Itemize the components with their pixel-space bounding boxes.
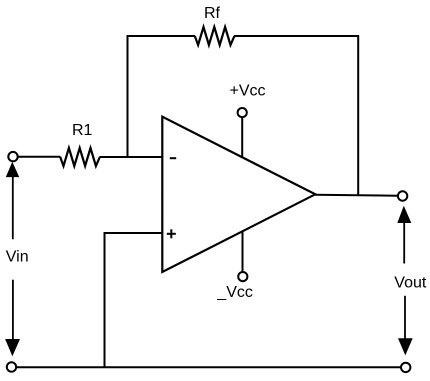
- wire feedback top-left horizontal segment: [128, 35, 196, 37]
- op-amp inverting input mark (-): [170, 157, 176, 159]
- wire -Vcc stub: [242, 231, 244, 272]
- wire input terminal to R1: [18, 156, 61, 158]
- svg-text:Vout: Vout: [394, 275, 427, 292]
- op-amp U1: [162, 117, 315, 272]
- Vout annotation arrow down head: [398, 338, 413, 355]
- Vin annotation arrow down head: [5, 339, 20, 356]
- node output terminal: [398, 191, 407, 200]
- Vout annotation lower shaft: [404, 296, 406, 340]
- wire feedback right vertical (down to output node): [357, 35, 359, 196]
- resistor R1: [60, 148, 100, 166]
- power +Vcc terminal: [238, 108, 247, 117]
- wire +Vcc stub: [241, 117, 243, 157]
- wire feedback top-right horizontal segment: [234, 35, 359, 37]
- Vin annotation lower shaft: [12, 280, 14, 340]
- wire non-inverting input down to ground rail: [104, 232, 106, 367]
- node input terminal (Vin top): [8, 152, 17, 161]
- power -Vcc terminal: [238, 272, 247, 281]
- wire non-inverting input horizontal: [104, 232, 163, 234]
- resistor Rf: [195, 27, 235, 45]
- Vout annotation upper shaft: [403, 216, 405, 264]
- svg-text:Rf: Rf: [204, 5, 221, 22]
- wire ground rail (bottom): [16, 366, 401, 368]
- Vout annotation arrow up head: [397, 206, 411, 223]
- wire output (apex to output terminal): [315, 195, 399, 196]
- wire feedback left vertical (down to inverting input node): [127, 35, 129, 157]
- wire R1 to inverting input: [100, 156, 163, 158]
- node bottom-left terminal: [7, 362, 16, 371]
- svg-text:+Vcc: +Vcc: [230, 82, 266, 99]
- svg-text:_Vcc: _Vcc: [216, 284, 253, 301]
- svg-text:R1: R1: [72, 122, 93, 139]
- op-amp non-inverting input mark (+): [167, 229, 176, 238]
- Vin annotation arrow up head: [6, 162, 19, 177]
- svg-text:Vin: Vin: [6, 249, 29, 266]
- Vin annotation upper shaft: [12, 170, 14, 239]
- node bottom-right terminal: [401, 363, 410, 372]
- node junction feedback/inverting-input: [127, 156, 129, 158]
